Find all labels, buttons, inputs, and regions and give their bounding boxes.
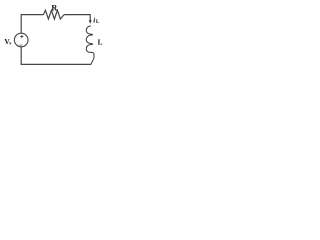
resistor R: [44, 10, 65, 19]
svg-text:L: L: [98, 39, 103, 47]
voltage source Vs (circle): [14, 33, 28, 47]
svg-text:s: s: [9, 41, 11, 46]
svg-text:L: L: [96, 19, 100, 25]
wire: source top lead, top-left corner, to resistor: [21, 15, 43, 34]
wire: bottom return wire: [21, 47, 91, 65]
wire: resistor to top-right corner, lead down: [64, 15, 90, 21]
svg-text:R: R: [51, 3, 57, 12]
inductor L coil: [86, 26, 94, 65]
+ polarity mark: [20, 35, 23, 38]
- polarity mark: [19, 44, 22, 46]
current arrow (points down): [89, 20, 92, 24]
